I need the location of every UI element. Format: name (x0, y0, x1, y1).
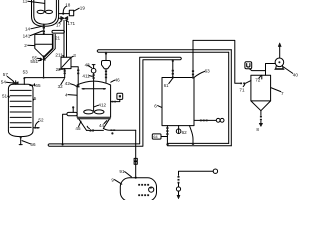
drain flange c (178, 182, 180, 184)
node tank6 top-left nozzle dot (172, 76, 174, 78)
vapor line to cyclone (193, 40, 240, 83)
box 64 link line (161, 136, 167, 138)
box 3 (61, 57, 71, 68)
cyclone cone (251, 101, 271, 111)
dust outlet arrow (260, 121, 262, 124)
svg-text:11: 11 (23, 0, 28, 3)
shaft flange b (93, 77, 95, 79)
svg-text:56: 56 (30, 142, 36, 147)
reactor R1 vessel inner wall (34, 0, 57, 24)
outlet flange b (113, 129, 115, 131)
drain ring circle (213, 169, 217, 173)
label 43 leader (88, 65, 92, 68)
tray 2 (10, 95, 31, 97)
label 411 leader (89, 75, 92, 78)
node funnel tip junction (43, 55, 45, 57)
label 18 leader (63, 6, 66, 12)
box 64 (152, 134, 161, 139)
pipe reactor side outlet to valve 17 (59, 17, 62, 19)
nozzle flange a (172, 70, 174, 72)
side pipe cigar left of vessel 4 (67, 112, 77, 115)
instrument box right of vessel 4 (117, 93, 123, 99)
svg-text:40: 40 (293, 73, 299, 78)
vessel 4 trough rim upper (78, 116, 111, 118)
svg-text:44: 44 (99, 123, 105, 128)
vessel 4 impeller left (84, 110, 94, 114)
pump 62 circle (176, 129, 181, 134)
drain flange c (166, 133, 168, 135)
drain flange a (166, 127, 168, 129)
tank 6 nozzle from bar B (172, 60, 174, 78)
tray 3 (10, 100, 31, 102)
svg-text:18: 18 (65, 3, 71, 8)
cyclone dust outlet (260, 111, 262, 116)
pipe box 3 down to header (64, 69, 66, 78)
bar A right riser double (229, 50, 232, 146)
small header drum on vessel 2 right (52, 30, 64, 33)
label 44 leader (104, 121, 107, 124)
svg-text:65: 65 (35, 83, 41, 88)
cigar top stub (72, 108, 74, 112)
pipe 21 double line along vessel 2 right (44, 34, 53, 57)
tray 7 (10, 122, 31, 124)
tray 1 (10, 89, 31, 91)
column left nozzle stub (15, 81, 17, 85)
node bar B nozzle dot (172, 60, 174, 62)
pump 62 stub (178, 126, 180, 129)
node column nozzle dot (23, 77, 25, 79)
tray 4 (10, 106, 31, 108)
vessel 2 settler body (35, 34, 53, 56)
label 46 leader (111, 80, 115, 82)
tank 6 side stub to 66 (194, 119, 216, 121)
stub flange b (203, 120, 205, 122)
label 6 leader (158, 106, 162, 108)
coupling on tank 9 feed lower (134, 162, 137, 165)
instrument flange a (112, 101, 114, 103)
flange 52 a (34, 127, 36, 129)
flange at dome entry (77, 86, 80, 88)
label 57 leader (7, 76, 13, 81)
tank 9 internal circle (149, 187, 154, 192)
tray 5 (10, 111, 31, 113)
column bottom outlet (20, 137, 22, 145)
vessel 2 level line (35, 43, 53, 45)
box 3 internal diagonal (62, 58, 70, 67)
pump 62 inner mark (178, 130, 180, 133)
vessel 4 sparger line (82, 88, 106, 90)
flange 141 upper (43, 27, 45, 29)
svg-text:63: 63 (205, 69, 211, 74)
node header drop junction (43, 77, 45, 79)
dust flange b (260, 119, 262, 121)
blower center dot (278, 61, 280, 63)
flange 52 b (37, 127, 39, 129)
label 2 leader (28, 44, 35, 46)
label 63 leader (194, 71, 204, 77)
trough right slant (103, 119, 109, 129)
column 5 top nozzle right (23, 78, 25, 85)
node tank 9 inlet dot (135, 177, 137, 179)
condenser box 19 (69, 10, 73, 16)
label 17 leader (59, 21, 62, 23)
svg-text:32: 32 (58, 84, 64, 89)
label 412 leader (94, 105, 98, 107)
nozzle 52 stub (33, 127, 39, 129)
node column outlet dot (20, 136, 22, 138)
svg-text:45: 45 (75, 126, 81, 131)
label 171 leader (66, 20, 68, 21)
tank 9 flange row 1 (138, 184, 149, 186)
agitator motor valve 43 stem (93, 65, 95, 69)
label 91 leader (125, 172, 132, 177)
valve 43 handle tick (92, 64, 95, 66)
flange 42 line upper (77, 70, 79, 72)
label 56 leader (22, 141, 30, 144)
svg-text:61: 61 (164, 83, 169, 88)
sight glass 66 ring a (216, 118, 220, 122)
pipe down to tank 9 (135, 130, 137, 178)
drain flange a (178, 176, 180, 178)
reactor bottom outlet pipe 14 (43, 24, 45, 34)
node drain pipe2 junction (192, 143, 194, 145)
label 54 leader (6, 81, 12, 84)
trough bottom (87, 129, 104, 131)
valve 43 circle (91, 68, 96, 73)
svg-text:4: 4 (65, 92, 68, 97)
tank 6 vapor nozzle 63 (192, 40, 194, 77)
svg-text:14: 14 (25, 27, 31, 32)
blower 40 circle (275, 58, 284, 67)
hopper neck line (105, 69, 107, 82)
svg-text:42: 42 (65, 81, 71, 86)
trough outlet line to tank 9 riser (103, 128, 135, 130)
svg-text:5: 5 (34, 96, 37, 101)
cyclone 7 cylinder (251, 75, 271, 101)
svg-text:57: 57 (3, 72, 9, 77)
svg-text:64: 64 (153, 135, 157, 139)
svg-text:46: 46 (115, 78, 121, 83)
pipe1 jacket line outer (left end cap, bottom run, riser, bar B top) (48, 57, 181, 146)
svg-text:91: 91 (119, 169, 125, 174)
node hopper stub dot (105, 53, 107, 55)
instrument flange b (114, 101, 116, 103)
stub flange a (200, 120, 202, 122)
vapor line flange a (240, 83, 242, 85)
vapor nozzle flange a (192, 70, 194, 72)
shaft flange a (93, 74, 95, 76)
column outlet end tick (19, 144, 22, 146)
svg-text:53: 53 (23, 70, 29, 75)
tank 6 bottom drain curve to pipe2 (190, 126, 194, 144)
tray 6 (10, 116, 31, 118)
node vapor nozzle dot (192, 76, 194, 78)
reactor R1 vessel outer jacket (32, 0, 59, 26)
svg-text:8: 8 (256, 127, 259, 132)
tank 9 body (120, 178, 156, 202)
stub flange c (206, 120, 208, 122)
blower base (276, 66, 284, 69)
svg-text:9: 9 (111, 177, 114, 182)
vapor nozzle flange b (192, 74, 194, 76)
label 42 leader (70, 84, 76, 87)
label 51 leader (8, 95, 10, 98)
instrument link line (250, 69, 266, 71)
drain arrow (178, 191, 180, 196)
agitator shaft 11 (44, 0, 46, 12)
node pipe2 left end dot (166, 143, 168, 145)
vessel 4 trough rim lower (78, 118, 111, 120)
node cigar stub dot (72, 106, 74, 108)
instrument box inner mark (119, 95, 121, 97)
hopper neck flange a (105, 71, 107, 73)
svg-text:171: 171 (67, 21, 75, 26)
label 141 leader (30, 31, 42, 36)
dust flange a (260, 116, 262, 118)
pipe2 bottom double line (168, 143, 232, 145)
svg-text:141: 141 (23, 34, 31, 39)
drain line mid (178, 184, 180, 187)
label 11 leader (28, 1, 45, 3)
tray 8 (10, 126, 31, 128)
svg-text:17: 17 (56, 22, 62, 27)
bottom right drain corner line (179, 171, 214, 175)
label 22 leader (59, 68, 64, 70)
cyclone gas outlet to blower (266, 64, 276, 76)
label 211 leader (63, 55, 64, 56)
svg-text:6: 6 (154, 104, 157, 109)
column 5 bottom head (8, 131, 33, 137)
node outlet stub dot (111, 132, 113, 134)
outlet flange a (110, 129, 112, 131)
svg-text:43: 43 (89, 128, 95, 133)
label 72 leader (259, 76, 261, 78)
svg-text:551: 551 (30, 59, 38, 64)
svg-text:51: 51 (2, 93, 8, 98)
label 3 leader (71, 56, 73, 57)
svg-text:2: 2 (24, 43, 27, 48)
blower base line (275, 68, 284, 70)
vapor line diagonal into cyclone (245, 81, 251, 84)
drain flange b (166, 130, 168, 132)
svg-text:62: 62 (182, 130, 188, 135)
svg-text:411: 411 (82, 73, 90, 78)
svg-text:412: 412 (98, 103, 106, 108)
bar A header double line (97, 50, 231, 52)
svg-text:7: 7 (281, 91, 284, 96)
vapor line flange b (243, 83, 245, 85)
label 61 leader (169, 78, 173, 83)
svg-text:21: 21 (55, 35, 61, 40)
product drop line from vessel 2 (43, 57, 45, 78)
instrument connecting line (111, 99, 120, 101)
tank 9 internal circle dot (150, 187, 152, 189)
svg-text:72: 72 (255, 78, 261, 83)
flange 141 lower (43, 31, 45, 33)
label 7 leader (271, 88, 281, 92)
hopper neck flange c (105, 77, 107, 79)
svg-text:54: 54 (1, 79, 7, 84)
nozzle flange b (172, 73, 174, 75)
impeller right blade (45, 10, 52, 13)
tank 6 body (162, 78, 194, 126)
node reactor outlet dot (43, 24, 45, 26)
nozzle 65 stub (30, 84, 35, 86)
svg-text:71: 71 (239, 87, 245, 92)
label 71 leader (243, 84, 245, 86)
flange on box3 drop upper (64, 70, 66, 72)
hopper body (102, 61, 111, 69)
node 18 junction dot (62, 13, 64, 15)
tank 9 flange row 2 (138, 194, 149, 196)
column 5 shell (8, 84, 33, 131)
pipe from cigar down to pipe1 (63, 114, 67, 144)
impeller left blade (37, 10, 44, 13)
agitator shaft 411 (93, 73, 95, 111)
cyclone vortex finder (261, 75, 263, 79)
pipe box3 to vessel 4 top line (71, 67, 78, 87)
hopper neck flange b (105, 74, 107, 76)
sight glass 66 ring b (220, 118, 224, 122)
label 551 leader (38, 59, 41, 61)
label 52 leader (35, 121, 38, 126)
instrument inner glyph (247, 64, 250, 68)
svg-text:52: 52 (38, 118, 44, 123)
label 32 leader (61, 79, 65, 85)
tank 6 bottom left drain line (166, 126, 168, 144)
header pipe 53 horizontal (24, 77, 64, 79)
label 43b leader (87, 126, 89, 128)
sparger flange left (83, 88, 85, 90)
pipe 211 double line from valve 17 down to box 3 (63, 20, 65, 57)
label 9 leader (114, 180, 121, 185)
label 55 leader (37, 57, 40, 60)
node pipe1 junction dot left (62, 143, 64, 145)
svg-text:211: 211 (55, 53, 63, 58)
valve 17 bowtie (61, 16, 68, 20)
drain valve circle (176, 187, 180, 191)
instrument box near cyclone (245, 62, 252, 69)
svg-text:22: 22 (56, 67, 62, 72)
label 19 leader (74, 8, 80, 11)
svg-text:19: 19 (80, 5, 86, 10)
vessel 4 impeller right (94, 110, 104, 114)
trough left slant (79, 119, 87, 131)
drain flange b (178, 179, 180, 181)
svg-text:3: 3 (73, 53, 76, 58)
vessel 4 body (77, 81, 111, 117)
flange 42 line lower (77, 73, 79, 75)
label 5 leader (33, 99, 34, 100)
coupling on tank 9 feed upper (134, 158, 137, 161)
node box 3 outlet dot (64, 68, 66, 70)
svg-text:43: 43 (85, 63, 91, 68)
blower discharge arrow (279, 46, 281, 58)
label 45 leader (79, 121, 81, 126)
node vessel 2 inlet dot (43, 33, 45, 35)
label 14 leader (31, 26, 43, 29)
valve 54 bowtie (13, 82, 18, 85)
valve 55 bowtie (40, 58, 45, 61)
sparger flange right (103, 88, 105, 90)
label 4 leader (68, 94, 77, 97)
pipe reactor to condenser 19 (59, 13, 70, 15)
label 40 leader (283, 67, 293, 74)
hopper feeder stub from bar A (105, 52, 107, 60)
flange on box3 drop lower (64, 73, 66, 75)
